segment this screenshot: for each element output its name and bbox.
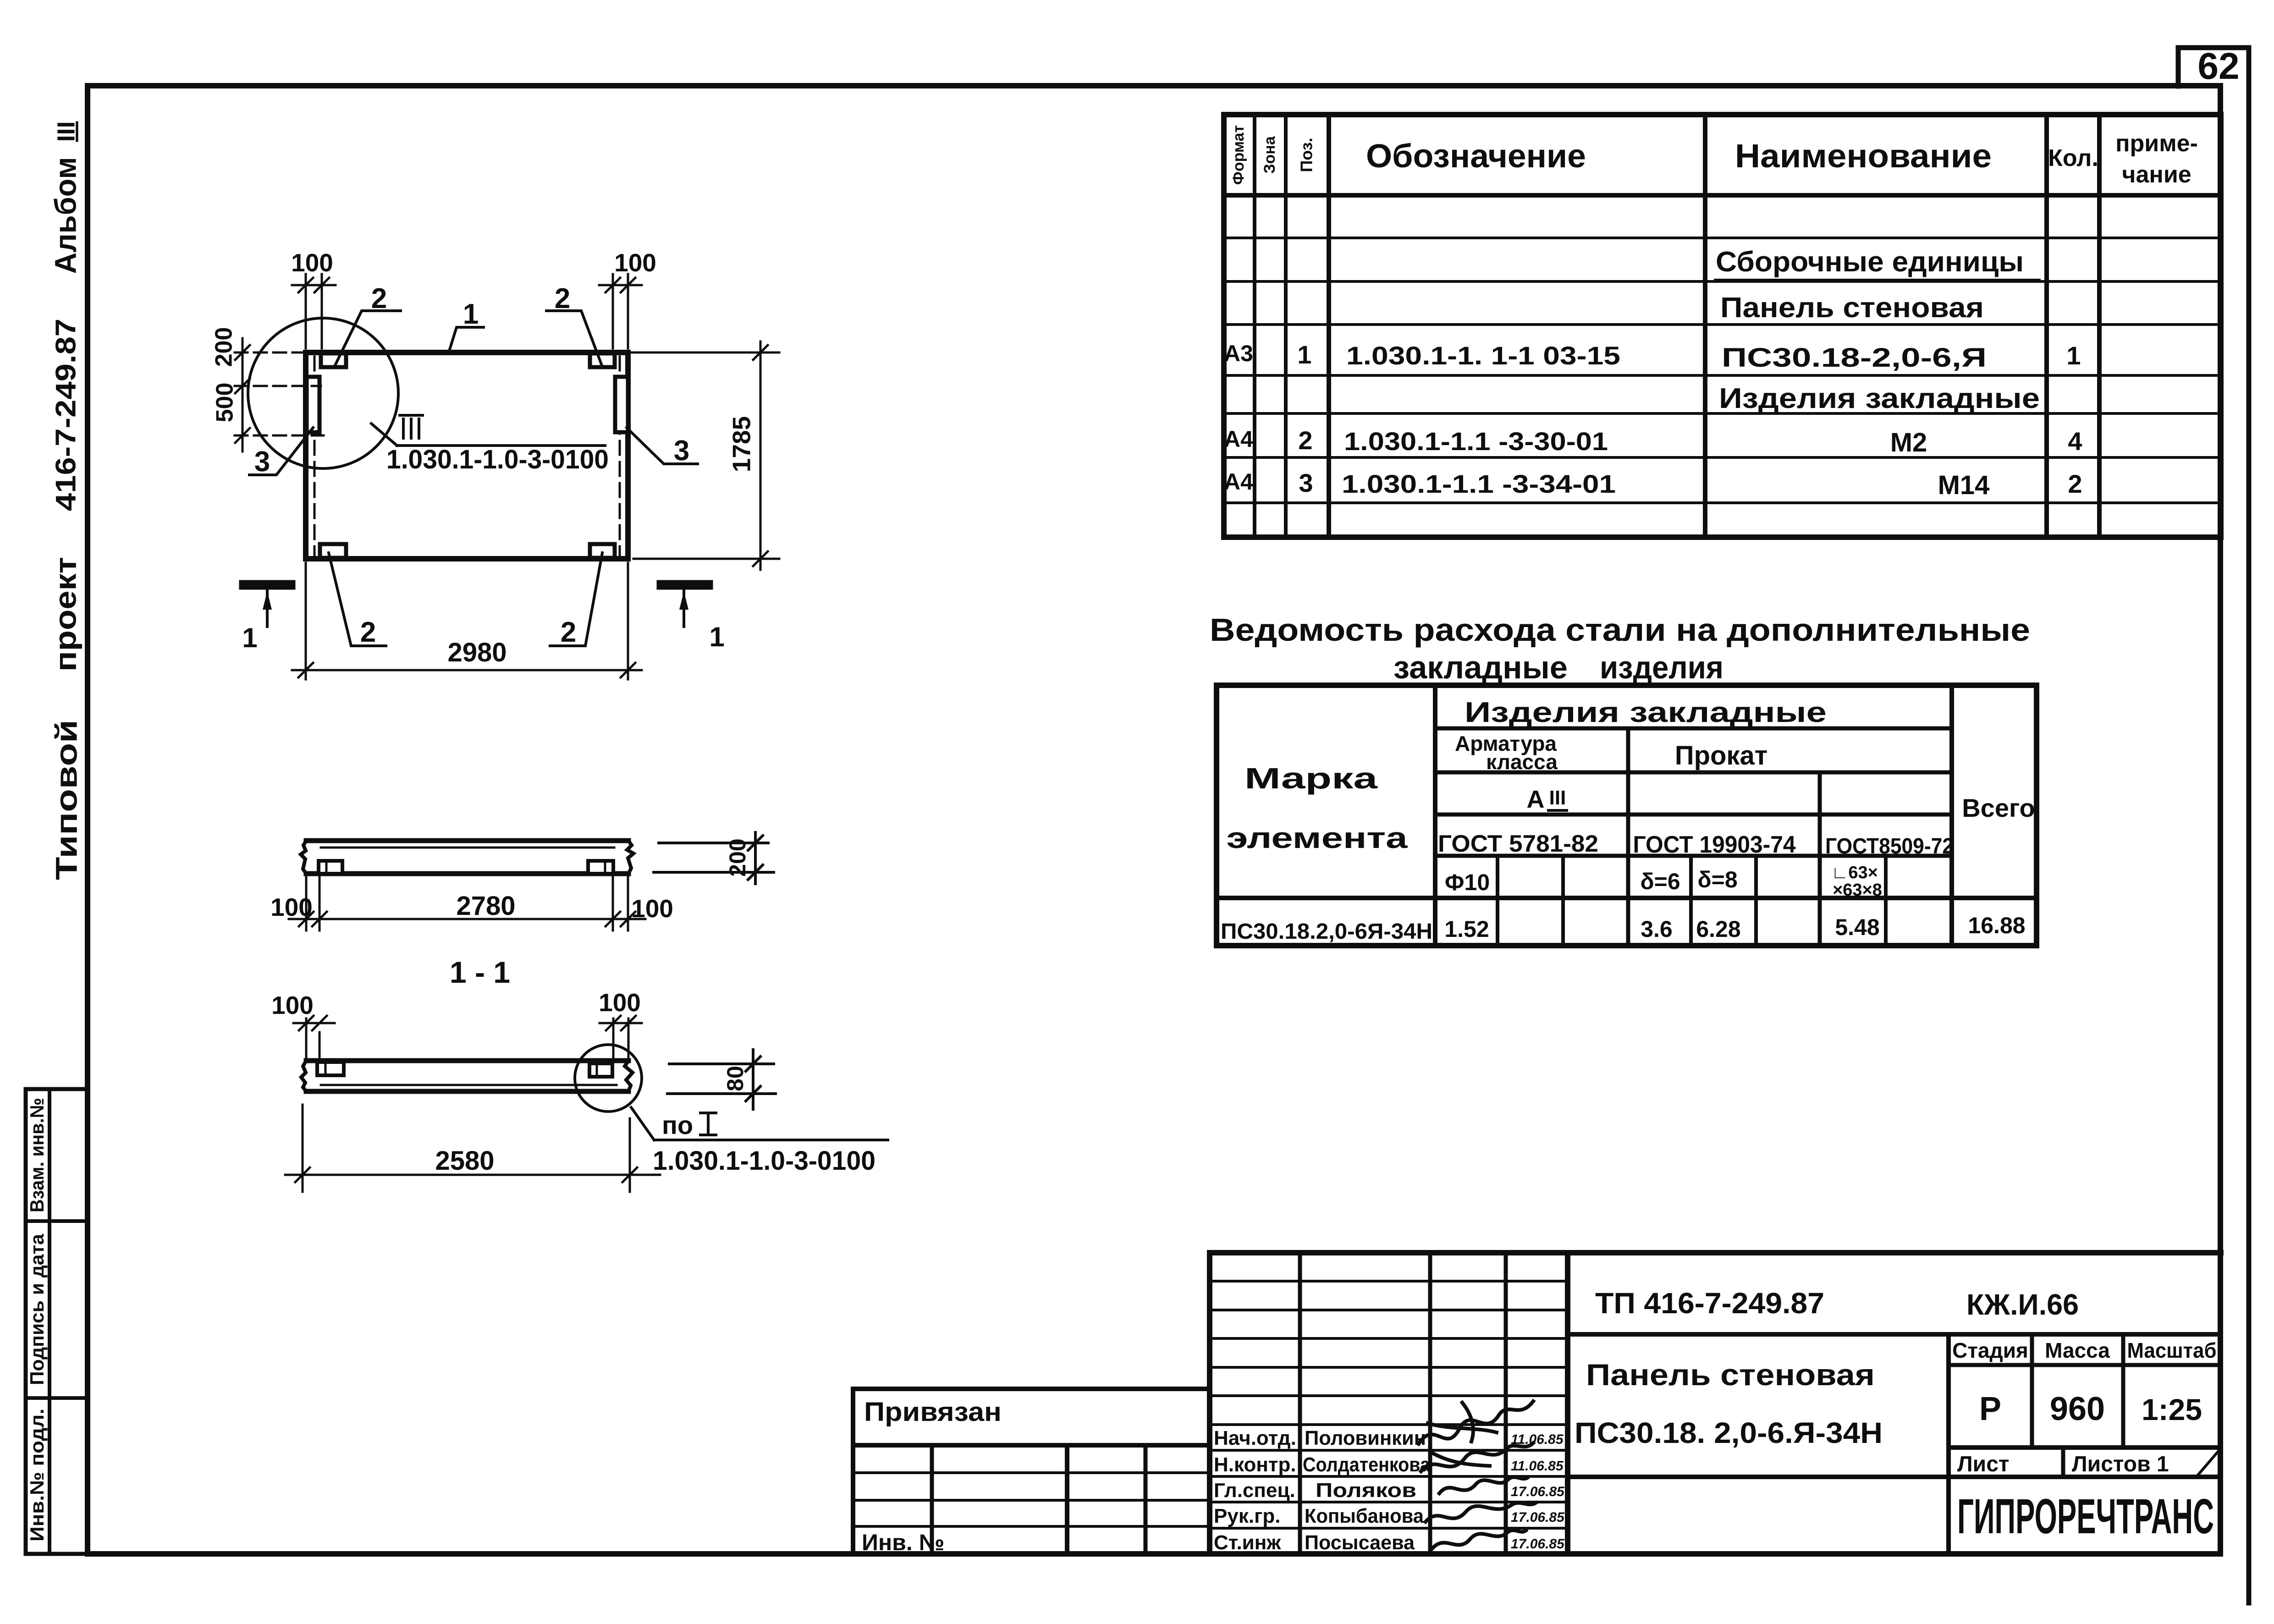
embed plate M2 bottom-right [590,544,615,558]
svg-text:ПС30.18. 2,0-6.Я-34Н: ПС30.18. 2,0-6.Я-34Н [1575,1416,1883,1449]
strip B inner bottom line [321,1084,617,1086]
svg-text:Масса: Масса [2045,1338,2110,1362]
svg-text:1: 1 [1297,340,1311,369]
strip A inner top line [321,847,614,849]
svg-text:3.6: 3.6 [1641,916,1673,942]
strip B thickness dim 80 [667,1050,776,1109]
embed plate M2 top-left [321,353,346,367]
leader pos.2 bottom-left [329,553,386,646]
svg-text:100: 100 [291,248,333,277]
svg-text:1.030.1-1.0-3-0100: 1.030.1-1.0-3-0100 [653,1146,875,1176]
dimension 1785 right [632,341,779,570]
svg-text:2: 2 [555,283,570,314]
detail circle I [248,318,398,468]
section mark 1 left [244,585,291,627]
leader po I [631,1107,888,1140]
section mark 1 right [661,585,708,627]
strip A embed plate left [319,861,342,874]
svg-text:960: 960 [2050,1391,2105,1427]
svg-text:Привязан: Привязан [864,1397,1002,1427]
svg-text:2980: 2980 [447,638,507,667]
spec table grid [1224,115,2221,537]
svg-text:Нач.отд.: Нач.отд. [1214,1427,1296,1449]
svg-text:элемента: элемента [1227,821,1408,854]
svg-text:1.030.1-1.0-3-0100: 1.030.1-1.0-3-0100 [386,445,609,474]
svg-text:ГИПРОРЕЧТРАНС: ГИПРОРЕЧТРАНС [1957,1488,2214,1544]
svg-text:закладные: закладные [1393,650,1568,685]
svg-text:1:25: 1:25 [2142,1393,2202,1426]
svg-text:2: 2 [371,283,387,314]
svg-text:Обозначение: Обозначение [1366,138,1586,175]
svg-text:1.52: 1.52 [1444,916,1489,942]
strip B dim 100 right [600,1016,642,1062]
svg-text:М2: М2 [1890,428,1927,457]
svg-text:А4: А4 [1224,426,1253,452]
svg-text:Формат: Формат [1230,125,1247,185]
svg-text:δ=8: δ=8 [1697,867,1737,892]
bottom-left mini table [853,1445,1210,1554]
svg-text:17.06.85: 17.06.85 [1511,1510,1565,1525]
signatures squiggles [1419,1401,1536,1548]
svg-text:1.030.1-1.1 -3-34-01: 1.030.1-1.1 -3-34-01 [1342,469,1616,498]
svg-text:2: 2 [360,617,376,648]
svg-text:Р: Р [1979,1391,2001,1427]
svg-text:100: 100 [599,988,641,1017]
svg-text:200: 200 [211,327,237,367]
svg-text:А: А [1527,786,1545,813]
svg-text:Панель стеновая: Панель стеновая [1720,292,1984,324]
svg-text:Альбом: Альбом [48,157,82,274]
svg-text:Лист: Лист [1957,1452,2009,1476]
svg-text:Кол.: Кол. [2048,145,2098,171]
svg-text:17.06.85: 17.06.85 [1511,1484,1565,1499]
svg-text:Подпись и дата: Подпись и дата [26,1233,48,1385]
embed plate M2 top-right [590,353,615,367]
svg-text:А4: А4 [1224,469,1253,495]
svg-text:2: 2 [1298,426,1312,455]
svg-text:3: 3 [1299,468,1313,497]
svg-text:3: 3 [254,446,270,478]
strip B dim 100 left [293,1016,335,1062]
strip A thickness dim 200 [654,832,774,884]
svg-text:Стадия: Стадия [1952,1338,2028,1362]
svg-text:Поляков: Поляков [1316,1479,1416,1502]
svg-text:∟63×: ∟63× [1831,863,1878,882]
steel table grid [1217,685,2037,946]
dimension 200/500 left [235,338,324,451]
svg-text:2580: 2580 [435,1146,494,1176]
strip A body [301,841,633,874]
svg-text:ГОСТ8509-72: ГОСТ8509-72 [1825,834,1954,859]
panel outline (pos.1) [306,352,628,559]
svg-text:изделия: изделия [1600,650,1723,685]
svg-text:ГОСТ 5781-82: ГОСТ 5781-82 [1438,831,1598,857]
svg-text:Наименование: Наименование [1735,138,1992,175]
svg-text:Масштаб: Масштаб [2127,1338,2217,1362]
svg-text:по: по [662,1111,693,1140]
svg-text:2: 2 [2068,469,2082,498]
title block grid [1210,1253,2221,1554]
svg-text:62: 62 [2197,45,2239,87]
dimension 100 top-right [599,274,642,348]
svg-text:ПС30.18.2,0-6Я-34Н: ПС30.18.2,0-6Я-34Н [1221,919,1432,944]
svg-text:Ст.инж: Ст.инж [1214,1531,1281,1554]
panel inner dashed line left [314,357,316,556]
svg-text:КЖ.И.66: КЖ.И.66 [1966,1288,2079,1321]
svg-text:1: 1 [242,622,257,653]
svg-text:Зона: Зона [1261,136,1278,174]
svg-text:4: 4 [2068,427,2082,456]
svg-text:чание: чание [2122,161,2191,188]
svg-text:17.06.85: 17.06.85 [1511,1536,1565,1552]
svg-text:2780: 2780 [456,891,515,921]
svg-text:500: 500 [212,383,238,423]
svg-text:Солдатенкова: Солдатенкова [1303,1453,1430,1476]
svg-text:Типовой: Типовой [49,720,83,880]
svg-text:ГОСТ 19903-74: ГОСТ 19903-74 [1633,831,1796,858]
svg-text:16.88: 16.88 [1968,913,2025,938]
dimension 100 top-left [292,274,336,348]
svg-text:Инв.№ подл.: Инв.№ подл. [26,1409,48,1541]
strip B body [301,1061,633,1091]
svg-text:1.030.1-1.1 -3-30-01: 1.030.1-1.1 -3-30-01 [1344,427,1608,456]
svg-text:80: 80 [722,1066,748,1091]
svg-text:Изделия закладные: Изделия закладные [1465,697,1827,728]
svg-text:200: 200 [725,838,750,876]
svg-text:416-7-249.87: 416-7-249.87 [50,319,82,511]
svg-text:Инв. №: Инв. № [862,1530,944,1555]
svg-text:1 - 1: 1 - 1 [450,955,510,989]
svg-text:III: III [52,121,80,142]
svg-text:приме-: приме- [2115,130,2198,157]
svg-text:1785: 1785 [727,416,756,472]
svg-text:М14: М14 [1938,470,1990,500]
svg-text:Взам. инв.№: Взам. инв.№ [26,1098,48,1212]
svg-text:2: 2 [561,617,576,648]
leader pos.2 top-left [336,311,401,364]
svg-text:1.030.1-1. 1-1 03-15: 1.030.1-1. 1-1 03-15 [1346,341,1620,370]
svg-text:А3: А3 [1224,341,1253,366]
dimension 2980 bottom [292,563,642,679]
svg-text:Марка: Марка [1244,762,1378,795]
svg-text:Ведомость расхода стали на доп: Ведомость расхода стали на дополнительны… [1210,612,2030,648]
svg-text:1: 1 [2066,341,2081,370]
svg-text:δ=6: δ=6 [1640,869,1680,894]
svg-text:×63×8: ×63×8 [1833,881,1882,900]
leader pos.3 left [249,428,313,475]
svg-text:ПС30.18-2,0-6,Я: ПС30.18-2,0-6,Я [1722,343,1987,373]
detail circle po I [575,1045,642,1112]
svg-text:5.48: 5.48 [1835,914,1879,940]
sheet outer edge line [2246,48,2252,1603]
leader pos.2 top-right [546,311,602,367]
svg-text:1: 1 [709,622,724,652]
leader pos.3 right [627,428,698,464]
svg-text:Листов 1: Листов 1 [2072,1452,2169,1476]
svg-text:проект: проект [48,557,82,672]
svg-text:1: 1 [463,298,479,330]
strip B embed plate right [589,1063,612,1077]
svg-text:100: 100 [270,893,313,921]
svg-text:Панель стеновая: Панель стеновая [1586,1358,1875,1392]
leader pos.2 bottom-right [550,553,602,646]
strip A embed plate right [588,861,613,874]
svg-text:Половинкин: Половинкин [1305,1427,1426,1449]
strip A dim 2780 with 100 ends [289,877,645,930]
svg-text:Н.контр.: Н.контр. [1214,1453,1296,1476]
svg-text:класса: класса [1486,750,1558,774]
svg-text:100: 100 [631,894,673,923]
left stamp column box [26,1089,88,1554]
svg-text:Копыбанова: Копыбанова [1305,1505,1424,1527]
embed plate M14 right [615,377,628,432]
svg-text:3: 3 [674,435,689,467]
svg-text:Сборочные единицы: Сборочные единицы [1716,246,2024,278]
embed plate M2 bottom-left [320,544,346,558]
svg-text:III: III [1549,787,1566,809]
svg-text:Ф10: Ф10 [1445,870,1490,895]
strip B dim 2580 [285,1105,660,1192]
page number box [2178,48,2249,86]
svg-text:Поз.: Поз. [1297,138,1316,172]
svg-text:11.06.85: 11.06.85 [1511,1432,1564,1447]
svg-text:11.06.85: 11.06.85 [1511,1459,1564,1474]
svg-text:100: 100 [614,248,656,277]
svg-text:Посысаева: Посысаева [1305,1531,1415,1554]
leader pos.1 [449,327,484,352]
svg-text:Гл.спец.: Гл.спец. [1214,1479,1295,1502]
embed plate M14 left [307,377,319,432]
svg-text:Изделия закладные: Изделия закладные [1719,383,2040,414]
callout III 1.030.1-1.0-3-0100 [371,415,605,446]
panel inner dashed line right [619,357,621,556]
svg-text:6.28: 6.28 [1696,916,1740,942]
Привязан box [853,1389,1210,1445]
svg-text:Рук.гр.: Рук.гр. [1214,1505,1281,1527]
svg-text:ТП 416-7-249.87: ТП 416-7-249.87 [1595,1287,1824,1320]
svg-text:Прокат: Прокат [1675,741,1767,771]
strip B embed plate left [317,1062,344,1075]
svg-text:100: 100 [271,991,314,1019]
svg-text:Всего: Всего [1962,793,2035,822]
